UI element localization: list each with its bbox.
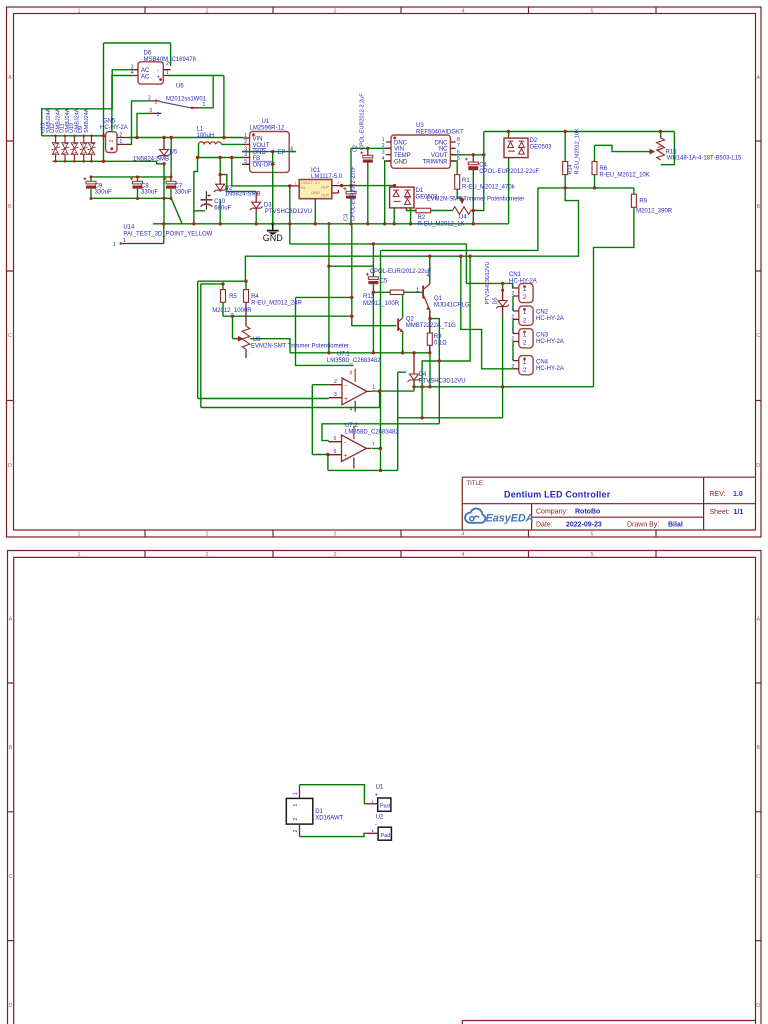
svg-text:VOUT: VOUT: [253, 143, 270, 149]
svg-text:100uH: 100uH: [197, 133, 215, 139]
svg-text:D5: D5: [493, 297, 499, 304]
svg-text:NC: NC: [439, 147, 448, 153]
svg-text:Date:: Date:: [536, 522, 553, 529]
capacitor C5: [366, 273, 379, 284]
svg-text:PTVSHC3D12VU: PTVSHC3D12VU: [419, 378, 466, 384]
svg-text:B: B: [756, 745, 760, 751]
svg-text:1: 1: [77, 532, 80, 538]
svg-text:CPOL-EUR2012-2.2uF: CPOL-EUR2012-2.2uF: [360, 93, 366, 150]
svg-text:WH148-1A-4-18T-B503-L15: WH148-1A-4-18T-B503-L15: [667, 156, 742, 162]
capacitors C9 C8 C7: [84, 175, 177, 200]
svg-text:1: 1: [372, 385, 375, 391]
svg-text:1: 1: [244, 133, 247, 139]
wire U2 bottom: [219, 200, 221, 224]
connector GN5: [106, 132, 130, 153]
svg-text:3: 3: [149, 108, 152, 114]
resistor R1: [455, 175, 460, 190]
svg-text:EP: EP: [278, 150, 286, 156]
reference U3 REF5040AIDGKT: [382, 135, 460, 168]
wire D5 bottom row: [398, 417, 503, 419]
wire GND net drop: [272, 152, 274, 224]
svg-text:-: -: [157, 68, 159, 74]
wire CN chain 3: [512, 342, 514, 361]
wire U2 top branch: [220, 158, 256, 192]
svg-text:3: 3: [333, 552, 336, 558]
svg-text:CN1: CN1: [509, 272, 522, 278]
svg-text:R6: R6: [599, 166, 607, 172]
led D1 XD16AWT: [286, 785, 313, 837]
wire R1 to U4 wiper: [457, 189, 462, 203]
wire D6 pin3 net: [42, 70, 134, 136]
pad U2: [365, 827, 391, 840]
svg-text:R-EU_M2012_1K: R-EU_M2012_1K: [418, 221, 465, 227]
svg-text:8: 8: [350, 371, 353, 377]
wire R14 risers: [564, 132, 566, 188]
svg-text:330uF: 330uF: [141, 190, 158, 196]
svg-text:4: 4: [244, 152, 247, 158]
resistor R9: [631, 194, 636, 207]
svg-text:5: 5: [244, 159, 247, 165]
svg-text:D3: D3: [264, 203, 272, 209]
svg-text:D4: D4: [419, 372, 427, 378]
transistor Q1 MJD41CRLG: [423, 282, 430, 312]
svg-text:C2: C2: [353, 145, 359, 152]
resistor R2: [416, 208, 431, 213]
resistor R6: [592, 162, 597, 175]
svg-text:3: 3: [157, 112, 160, 118]
wire R9 risers: [594, 188, 634, 387]
svg-text:330uF: 330uF: [95, 190, 112, 196]
svg-text:1/1: 1/1: [734, 509, 744, 516]
svg-text:2: 2: [334, 379, 337, 385]
svg-text:U4: U4: [459, 215, 467, 221]
svg-text:5: 5: [590, 532, 593, 538]
svg-text:IN: IN: [301, 185, 305, 190]
resistor R14: [563, 162, 568, 175]
op-amp U7.2 LM358D: [328, 426, 375, 469]
svg-text:2: 2: [205, 532, 208, 538]
connector CN1 HC-HY-2A: [511, 283, 533, 302]
svg-text:C4: C4: [479, 162, 487, 168]
svg-text:2022-09-23: 2022-09-23: [566, 522, 602, 529]
svg-text:MMBT2222A_T1G: MMBT2222A_T1G: [406, 323, 456, 329]
svg-text:U2: U2: [225, 185, 233, 191]
trimmer U4 EVM2N-SMT: [453, 199, 471, 215]
wire top loop: [104, 43, 171, 161]
trimmer U8 EVM2N-SMT: [235, 302, 250, 358]
sheet border page 2 inner: [14, 557, 756, 1024]
svg-text:R-EU_M2012_10K: R-EU_M2012_10K: [575, 128, 581, 174]
connector CN2 HC-HY-2A: [511, 306, 533, 325]
svg-text:4: 4: [461, 532, 464, 538]
svg-text:L1: L1: [197, 127, 204, 133]
svg-text:C: C: [756, 333, 760, 339]
svg-text:R14: R14: [568, 164, 574, 174]
wire D5 drop: [502, 283, 504, 417]
ruler ticks columns page 1: [145, 7, 656, 537]
svg-text:Company:: Company:: [536, 509, 568, 516]
wire CN return net: [422, 256, 513, 424]
svg-text:AC: AC: [141, 68, 150, 74]
svg-text:VIN: VIN: [253, 136, 263, 142]
wire sense loop outer: [198, 281, 329, 398]
svg-text:VIN: VIN: [394, 147, 404, 153]
svg-text:1: 1: [511, 306, 514, 312]
svg-text:C: C: [9, 874, 13, 880]
wire load rail: [414, 386, 594, 388]
wire R6 risers: [594, 145, 596, 188]
svg-text:CN2: CN2: [536, 310, 549, 316]
svg-text:C9: C9: [95, 183, 103, 189]
diode array U9 U10 U11 U12 U13 SMBJ24A: [51, 135, 95, 163]
wire TVS top bus: [42, 135, 104, 137]
svg-text:R4: R4: [251, 294, 259, 300]
title block frame: [462, 477, 755, 530]
svg-text:2: 2: [382, 143, 385, 149]
wire top 24V rail: [484, 132, 675, 165]
svg-text:2: 2: [205, 9, 208, 15]
svg-text:+: +: [344, 396, 348, 403]
svg-text:RotoBo: RotoBo: [575, 509, 600, 516]
testpoint U14: [113, 238, 164, 248]
svg-text:GND: GND: [253, 150, 267, 156]
wire collector net: [245, 188, 578, 282]
svg-text:1: 1: [382, 137, 385, 143]
transistor Q2 MMBT2222A: [398, 317, 403, 332]
wire main input rail: [130, 137, 244, 139]
pad U1: [365, 798, 391, 811]
wire R15 top stub: [660, 132, 662, 138]
svg-text:U1: U1: [376, 785, 384, 791]
wire trimmer row: [431, 155, 484, 211]
svg-text:Pad: Pad: [380, 803, 390, 809]
svg-text:D: D: [756, 1003, 760, 1009]
svg-text:GN5: GN5: [103, 119, 116, 125]
resistor R3: [427, 333, 432, 345]
svg-text:TRIM/NR: TRIM/NR: [423, 159, 449, 165]
svg-text:7: 7: [372, 442, 375, 448]
svg-text:1N5824-SMB: 1N5824-SMB: [225, 192, 261, 198]
svg-text:2: 2: [511, 315, 514, 321]
wire TRIM to R1: [450, 161, 457, 175]
svg-text:LM1117-5.0: LM1117-5.0: [311, 174, 343, 180]
svg-text:OUT: OUT: [321, 193, 330, 198]
svg-text:M2012_390R: M2012_390R: [636, 209, 673, 215]
svg-text:B: B: [756, 204, 760, 210]
inductor L1: [199, 142, 222, 145]
wire R13 net: [373, 291, 423, 293]
svg-text:U14: U14: [123, 225, 135, 231]
wire C3 column: [350, 148, 352, 224]
svg-text:3: 3: [382, 149, 385, 155]
wire U3 VOUT row: [450, 132, 483, 155]
svg-text:TITLE:: TITLE:: [467, 481, 485, 487]
svg-text:EVM2N-SMT Trimmer Potentiomete: EVM2N-SMT Trimmer Potentiometer: [251, 343, 349, 349]
capacitor C10: [201, 191, 213, 209]
svg-text:VOUT: VOUT: [431, 153, 448, 159]
ruler labels page 2: [9, 552, 761, 1009]
wire CN supply net: [290, 244, 513, 288]
svg-text:TEMP: TEMP: [394, 153, 411, 159]
svg-text:1: 1: [203, 102, 206, 108]
wire U3 GND net: [385, 161, 391, 224]
bridge rectifier D6: [131, 61, 171, 84]
svg-text:U7.2: U7.2: [345, 423, 358, 429]
wire Q1 emitter: [429, 311, 431, 353]
svg-text:1: 1: [511, 356, 514, 362]
svg-text:5: 5: [334, 449, 337, 455]
svg-text:REV:: REV:: [710, 491, 726, 498]
svg-text:HC-HY-2A: HC-HY-2A: [509, 279, 537, 285]
svg-text:C10: C10: [214, 199, 226, 205]
svg-text:A: A: [8, 75, 12, 81]
svg-text:XD16AWT: XD16AWT: [315, 815, 343, 821]
svg-text:R3: R3: [434, 334, 442, 340]
svg-text:CN3: CN3: [536, 332, 549, 338]
wire 12V feed: [232, 158, 289, 186]
svg-text:C7: C7: [175, 183, 183, 189]
wire FB line: [198, 157, 244, 159]
wire D6 plus net: [168, 76, 224, 138]
resistor R5: [221, 290, 226, 303]
wire C5 net: [329, 224, 374, 353]
wire opamp2 feedback: [328, 448, 398, 470]
op-amp U7.1 LM358D: [329, 369, 376, 413]
svg-text:R9: R9: [639, 198, 647, 204]
svg-text:1.0: 1.0: [733, 491, 743, 498]
ruler ticks page 2: [8, 551, 762, 941]
wire R15 wiper line: [595, 145, 653, 151]
sheet border page 1 outer: [7, 7, 762, 537]
capacitor C3: [344, 187, 357, 198]
svg-text:2: 2: [205, 552, 208, 558]
svg-text:Sheet:: Sheet:: [710, 509, 730, 516]
wire Q2 collector: [402, 292, 404, 317]
svg-text:U3: U3: [416, 123, 424, 129]
svg-text:C: C: [756, 874, 760, 880]
switch U6: [147, 96, 205, 119]
svg-text:A: A: [756, 616, 760, 622]
wire sense loop inner: [201, 284, 380, 408]
wire caps riser: [170, 138, 172, 177]
potentiometer R15: [649, 137, 665, 161]
svg-text:Q2: Q2: [406, 316, 415, 322]
connector CN4 HC-HY-2A: [511, 356, 533, 375]
wire C2 column: [367, 148, 369, 224]
wire D1 to pad U2: [300, 833, 366, 836]
bridge D2 GE0503: [504, 138, 528, 158]
svg-text:HC-HY-2A: HC-HY-2A: [536, 316, 564, 322]
svg-text:6: 6: [457, 149, 460, 155]
svg-text:2: 2: [293, 818, 299, 821]
svg-text:2: 2: [511, 337, 514, 343]
wire D1 risers: [394, 186, 416, 224]
svg-text:D1: D1: [416, 188, 424, 194]
svg-text:GND: GND: [263, 233, 284, 243]
diode D4: [408, 353, 421, 382]
wire U8 wiper net: [233, 316, 243, 339]
svg-text:R-EU_M2012_470k: R-EU_M2012_470k: [462, 185, 516, 191]
wire U8 out: [250, 339, 290, 353]
svg-text:LM2596R-12: LM2596R-12: [250, 125, 285, 131]
svg-text:3: 3: [333, 9, 336, 15]
svg-text:D: D: [756, 463, 760, 469]
svg-text:DNC: DNC: [394, 140, 408, 146]
wire GN5 pin1 to switch: [130, 101, 147, 144]
svg-text:4: 4: [382, 156, 385, 162]
svg-text:LM358D_C2683482: LM358D_C2683482: [327, 358, 381, 364]
wire U5 bottom: [164, 164, 182, 224]
wire ground rail: [153, 223, 509, 225]
svg-text:D: D: [9, 1003, 13, 1009]
svg-text:HC-HY-2A: HC-HY-2A: [536, 366, 564, 372]
svg-text:4: 4: [350, 407, 353, 413]
svg-text:1: 1: [120, 139, 123, 145]
svg-text:Pad: Pad: [381, 833, 391, 839]
wire U14 net: [163, 224, 165, 244]
wire opamp in link: [312, 385, 329, 455]
svg-text:R-EU_M2012_24R: R-EU_M2012_24R: [251, 301, 302, 307]
svg-text:8: 8: [457, 137, 460, 143]
svg-text:Bilal: Bilal: [668, 522, 683, 529]
svg-text:1: 1: [293, 792, 299, 795]
svg-text:2: 2: [148, 96, 151, 102]
svg-text:1: 1: [416, 287, 419, 293]
svg-text:4: 4: [461, 9, 464, 15]
wire D3 bottom: [255, 214, 257, 224]
svg-text:C5: C5: [380, 278, 388, 284]
svg-text:M2012ss1W01: M2012ss1W01: [166, 97, 207, 103]
svg-text:2: 2: [155, 100, 158, 106]
svg-text:330uF: 330uF: [175, 190, 192, 196]
svg-text:+: +: [344, 453, 348, 460]
svg-text:R2: R2: [418, 215, 426, 221]
wire U1 GND EP line overlay: [242, 152, 296, 224]
svg-text:2: 2: [109, 140, 115, 143]
capacitor C4: [465, 158, 479, 171]
svg-text:4: 4: [131, 70, 134, 76]
svg-text:GE0503: GE0503: [530, 144, 553, 150]
diode U2: [214, 176, 227, 192]
svg-text:U6: U6: [176, 84, 184, 90]
resistor R4: [244, 290, 249, 303]
wire switch pin3 net: [137, 113, 150, 137]
svg-text:3: 3: [333, 532, 336, 538]
svg-text:CPOL-EUR/2012-22uF: CPOL-EUR/2012-22uF: [370, 269, 432, 275]
svg-text:R5: R5: [229, 294, 237, 300]
svg-text:-: -: [375, 823, 377, 829]
wire cap bottom rail: [91, 197, 171, 199]
svg-text:PTVSHC3D12VU: PTVSHC3D12VU: [485, 261, 491, 304]
svg-text:4: 4: [461, 552, 464, 558]
wire U1 onoff line: [242, 163, 273, 165]
wire opamp2 pin6 net: [322, 372, 439, 470]
diode D3: [250, 192, 263, 214]
svg-text:1: 1: [511, 329, 514, 335]
svg-text:2: 2: [244, 139, 247, 145]
svg-text:R13: R13: [363, 294, 375, 300]
ruler ticks rows page 1: [7, 141, 762, 401]
svg-text:1N5824-SMB: 1N5824-SMB: [133, 157, 169, 163]
svg-text:A: A: [756, 75, 760, 81]
svg-text:REF5040AIDGKT: REF5040AIDGKT: [416, 129, 464, 135]
wire TVS bottom bus: [53, 161, 165, 164]
wire D4 bottom: [413, 381, 415, 391]
wire emitter rail: [290, 352, 430, 354]
svg-text:D1: D1: [315, 809, 323, 815]
wire R5 bottom row: [223, 302, 352, 316]
wire C10 loop: [194, 158, 205, 224]
svg-text:GND: GND: [394, 159, 408, 165]
sheet border page 2 outer: [8, 551, 762, 1024]
wire IC1 out rail: [342, 185, 395, 187]
svg-text:MSB40M_C169478: MSB40M_C169478: [144, 57, 197, 63]
wire D2 risers: [508, 132, 510, 224]
svg-text:PAI_TEST_3D_POINT_YELLOW: PAI_TEST_3D_POINT_YELLOW: [123, 231, 212, 237]
svg-text:D2: D2: [530, 138, 538, 144]
capacitor C2: [360, 151, 373, 162]
svg-text:Q1: Q1: [434, 296, 443, 302]
svg-text:D6: D6: [144, 51, 152, 57]
diode D5: [496, 296, 509, 309]
wire opamp1 output: [372, 391, 414, 407]
svg-text:U5: U5: [170, 150, 178, 156]
svg-text:1: 1: [113, 242, 116, 248]
wire CN chain 2: [512, 319, 514, 333]
svg-text:A: A: [9, 616, 13, 622]
wire U3 VIN net: [351, 147, 391, 149]
regulator IC1 LM1117-5.0: [289, 180, 342, 207]
regulator U1 LM2596R-12: [244, 132, 294, 173]
svg-text:MJD41CRLG: MJD41CRLG: [434, 303, 470, 309]
svg-text:5: 5: [457, 156, 460, 162]
svg-text:U7.1: U7.1: [337, 351, 350, 357]
wire L1 output: [199, 144, 244, 157]
svg-text:HC-HY-2A: HC-HY-2A: [100, 125, 128, 131]
svg-text:3: 3: [334, 392, 337, 398]
wire C4 risers: [472, 155, 474, 224]
wire junctions: [102, 130, 663, 472]
svg-text:D: D: [8, 463, 12, 469]
svg-text:5: 5: [590, 9, 593, 15]
svg-text:U2: U2: [376, 814, 384, 820]
svg-text:U8: U8: [253, 337, 261, 343]
svg-text:680uF: 680uF: [214, 205, 231, 211]
svg-text:R15: R15: [666, 149, 678, 155]
svg-text:B: B: [8, 204, 12, 210]
svg-text:CN4: CN4: [536, 359, 549, 365]
wire CN chain 1: [512, 296, 514, 311]
svg-text:1: 1: [77, 552, 80, 558]
svg-text:C8: C8: [141, 183, 149, 189]
diode U5: [158, 138, 171, 158]
svg-text:4: 4: [427, 273, 430, 279]
svg-text:CPOL-EUR2012-22uF: CPOL-EUR2012-22uF: [351, 165, 357, 221]
wire IC1 ground pin: [314, 206, 316, 224]
svg-text:C3: C3: [344, 214, 350, 221]
svg-text:R1: R1: [462, 178, 470, 184]
svg-text:GND: GND: [311, 190, 320, 195]
wire mid sense row: [538, 187, 634, 189]
svg-text:PTVSHC3D12VU: PTVSHC3D12VU: [265, 209, 312, 215]
svg-text:5: 5: [590, 552, 593, 558]
svg-text:EVM2N-SMT Trimmer Potentiomete: EVM2N-SMT Trimmer Potentiometer: [427, 196, 525, 202]
svg-text:6: 6: [334, 436, 337, 442]
svg-text:AC: AC: [141, 75, 150, 81]
wire 12V mid drop: [290, 186, 538, 471]
bridge D1 GE0503: [390, 187, 414, 208]
svg-text:2: 2: [120, 132, 123, 138]
